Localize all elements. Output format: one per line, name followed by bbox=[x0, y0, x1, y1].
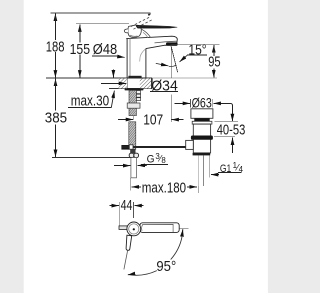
G3/8 right arrow bbox=[138, 164, 148, 166]
dim 44 left ext bbox=[119, 202, 121, 226]
lever tip extension line bbox=[180, 227, 189, 229]
dim Ø63 extension lines bbox=[190, 99, 192, 108]
under-deck nut bbox=[125, 88, 144, 90]
plan knob inner circle bbox=[129, 224, 139, 234]
deck bottom line bbox=[109, 88, 152, 90]
threaded shank lower bbox=[129, 122, 136, 150]
supply pipe bbox=[131, 158, 137, 178]
svg-text:95: 95 bbox=[208, 54, 220, 71]
deck hole left edge bbox=[126, 78, 128, 88]
water stream vertical line upper bbox=[170, 45, 172, 78]
label G1 1/4 underline bbox=[218, 171, 242, 173]
dim Ø63 right arrow bbox=[213, 102, 230, 104]
svg-text:15°: 15° bbox=[188, 41, 206, 58]
label G1 1/4 ext line bbox=[209, 156, 211, 178]
svg-text:155: 155 bbox=[70, 41, 90, 58]
aerator bbox=[166, 42, 178, 45]
385 bottom reference line bbox=[52, 157, 132, 159]
lever knob bbox=[128, 25, 141, 37]
faucet body outline bbox=[127, 36, 178, 78]
15 degree arc left arrow bbox=[156, 63, 169, 66]
dim max.180 right arrow bbox=[187, 186, 197, 188]
cartridge dome bbox=[142, 29, 151, 37]
water stream vertical line lower bbox=[170, 95, 172, 122]
cartridge dome inner bbox=[143, 32, 148, 37]
15 degree arc right segment + leader bbox=[180, 55, 188, 62]
label Ø34 leader arrow bbox=[101, 82, 126, 84]
G3/8 left arrow bbox=[114, 165, 130, 167]
dim 40-53 upper arrow bbox=[231, 105, 233, 122]
drain locknut bbox=[192, 121, 212, 124]
max.30 underline bbox=[68, 107, 111, 109]
dim 40-53 lower arrow bbox=[232, 138, 234, 153]
corner from Ø63 to 40-53 arrow bbox=[230, 103, 232, 105]
shank hex fitting right lobe bbox=[134, 153, 139, 157]
svg-text:Ø34: Ø34 bbox=[151, 78, 178, 95]
deck right edge bbox=[150, 78, 152, 89]
drain flange bbox=[191, 109, 213, 119]
label G1 1/4 arrow bbox=[211, 174, 219, 176]
knob ear bbox=[124, 29, 128, 33]
dim Ø63 left arrow bbox=[175, 102, 191, 104]
dim 40-53 top extension line bbox=[215, 121, 238, 123]
deck hatch left of hole bbox=[119, 78, 128, 88]
svg-text:max.180: max.180 bbox=[142, 180, 186, 197]
body inner curve bbox=[140, 49, 146, 62]
shank mid nut bbox=[127, 103, 140, 108]
dim 95 line + arrows bbox=[213, 45, 215, 77]
dim 188 extension line bbox=[50, 12, 150, 14]
pop-up horizontal rod bbox=[122, 146, 186, 148]
drain body bbox=[193, 124, 210, 153]
15 degree underline bbox=[187, 54, 207, 56]
drain ball joint housing bbox=[186, 140, 194, 149]
deck top line bbox=[46, 77, 152, 79]
dim max.180 left arrow bbox=[132, 186, 142, 188]
dim 385 line upper bbox=[55, 80, 57, 111]
label Ø34 underline bbox=[150, 90, 178, 92]
label Ø48 leader arrow bbox=[118, 56, 125, 59]
lever lift ghost dash 1 bbox=[131, 17, 150, 27]
white drawing area bbox=[24, 0, 268, 293]
svg-text:95°: 95° bbox=[156, 258, 176, 275]
svg-text:385: 385 bbox=[45, 110, 67, 127]
spout slab bottom line bbox=[155, 41, 177, 43]
svg-text:107: 107 bbox=[143, 112, 163, 129]
max.30 leader arrow bbox=[111, 91, 114, 108]
shank hex fitting bbox=[129, 153, 134, 157]
plan lever axis line bbox=[124, 251, 128, 270]
dim 44 left arrow bbox=[110, 205, 119, 207]
label Ø48 underline bbox=[92, 55, 121, 57]
95 degree arc lower segment bbox=[128, 271, 157, 276]
plan pop-up stub bbox=[119, 226, 127, 230]
dim 385 line lower + arrow bbox=[55, 125, 57, 158]
95 reference line bbox=[170, 44, 219, 46]
95 degree arc top arrow bbox=[181, 229, 184, 233]
rod linkage blocks bbox=[136, 91, 140, 101]
lever lift ghost dash 2 bbox=[133, 20, 152, 30]
threaded shank upper bbox=[129, 90, 136, 115]
dim 188 line + arrows bbox=[54, 14, 56, 78]
dim 40-53 bottom extension line bbox=[214, 136, 235, 138]
dim max.180 right ext bbox=[198, 186, 200, 193]
knob inner arc bbox=[130, 35, 138, 36]
svg-text:Ø63: Ø63 bbox=[192, 95, 212, 111]
rod lower block bbox=[130, 149, 135, 153]
plan knob outer circle bbox=[127, 222, 141, 236]
dim max.180 left ext bbox=[129, 178, 131, 191]
dim 385 upper arrow bbox=[55, 79, 57, 88]
dim 155 extension line bbox=[76, 23, 129, 25]
dim 107 left arrow bbox=[118, 119, 133, 121]
svg-text:40-53: 40-53 bbox=[217, 121, 246, 138]
svg-text:188: 188 bbox=[46, 38, 65, 55]
dim 155 line + arrows bbox=[79, 24, 81, 77]
plan lever arm inner line bbox=[142, 224, 173, 232]
95 degree arc bottom arrow bbox=[128, 273, 133, 276]
15 degree slanted ray bbox=[171, 45, 178, 72]
drain lower dark band bbox=[193, 153, 211, 156]
lever bar bbox=[136, 25, 177, 28]
plan lever down position bbox=[126, 235, 132, 250]
drain seal ring bbox=[194, 118, 209, 121]
svg-text:44: 44 bbox=[121, 197, 133, 214]
dim 44 right ext bbox=[133, 202, 135, 218]
label G3/8 underline bbox=[141, 164, 168, 166]
pop-up rod clamp bbox=[121, 145, 129, 150]
deck top line gray extension bbox=[152, 77, 217, 79]
95 degree arc upper segment bbox=[171, 230, 183, 260]
dim 44 right arrow bbox=[134, 205, 143, 207]
drain tailpipe bbox=[199, 156, 204, 187]
plan knob center dot bbox=[133, 228, 135, 230]
plan lever arm bbox=[140, 223, 179, 233]
rod guide block bbox=[129, 145, 133, 149]
drain big nut bbox=[191, 136, 213, 140]
shank break centerline bbox=[133, 116, 135, 120]
dim 107 right arrow bbox=[171, 119, 183, 121]
body inner edge line bbox=[129, 39, 131, 78]
deck hatch right of hole bbox=[140, 78, 152, 88]
lever lift arrow bbox=[148, 14, 151, 17]
15 degree arc small segment bbox=[169, 65, 177, 67]
max.30 upper arrow bbox=[112, 69, 114, 77]
deck right edge outer bbox=[152, 78, 154, 89]
svg-text:max.30: max.30 bbox=[71, 93, 109, 110]
base gasket bbox=[128, 76, 141, 78]
